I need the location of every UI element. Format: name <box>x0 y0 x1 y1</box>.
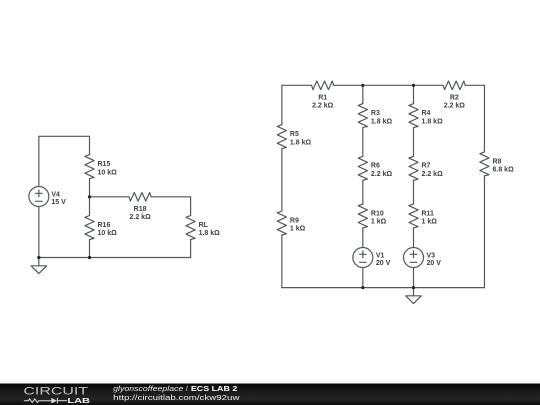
svg-text:R10: R10 <box>371 210 384 217</box>
svg-text:R4: R4 <box>422 110 431 117</box>
svg-text:10 kΩ: 10 kΩ <box>98 230 118 237</box>
svg-text:1 kΩ: 1 kΩ <box>371 219 387 226</box>
svg-text:1.8 kΩ: 1.8 kΩ <box>290 139 312 146</box>
svg-text:R2: R2 <box>450 94 459 101</box>
svg-text:V3: V3 <box>427 252 436 259</box>
svg-text:LAB: LAB <box>67 396 90 405</box>
svg-text:2.2 kΩ: 2.2 kΩ <box>312 103 334 110</box>
svg-text:1.8 kΩ: 1.8 kΩ <box>371 118 393 125</box>
svg-text:V1: V1 <box>376 252 385 259</box>
svg-text:2.2 kΩ: 2.2 kΩ <box>371 171 393 178</box>
svg-text:glyonscoffeeplace: glyonscoffeeplace <box>113 384 183 393</box>
svg-text:R3: R3 <box>371 110 380 117</box>
svg-text:2.2 kΩ: 2.2 kΩ <box>422 171 444 178</box>
svg-text:R1: R1 <box>318 94 327 101</box>
svg-text:15 V: 15 V <box>51 199 66 206</box>
svg-text:1 kΩ: 1 kΩ <box>290 226 306 233</box>
svg-text:R18: R18 <box>134 206 147 213</box>
svg-text:10 kΩ: 10 kΩ <box>98 169 118 176</box>
svg-text:1.8 kΩ: 1.8 kΩ <box>422 118 444 125</box>
svg-text:2.2 kΩ: 2.2 kΩ <box>444 103 466 110</box>
svg-text:1 kΩ: 1 kΩ <box>422 219 438 226</box>
svg-text:R16: R16 <box>98 222 111 229</box>
svg-text:R9: R9 <box>290 217 299 224</box>
svg-text:ECS LAB 2: ECS LAB 2 <box>191 384 237 393</box>
svg-text:20 V: 20 V <box>427 260 442 267</box>
svg-text:V4: V4 <box>51 192 60 199</box>
svg-text:http://circuitlab.com/ckw92uw: http://circuitlab.com/ckw92uw <box>113 393 240 402</box>
svg-text:1.8 kΩ: 1.8 kΩ <box>199 230 221 237</box>
svg-text:R6: R6 <box>371 163 380 170</box>
svg-text:R5: R5 <box>290 131 299 138</box>
svg-text:R8: R8 <box>493 158 502 165</box>
svg-text:6.8 kΩ: 6.8 kΩ <box>493 167 515 174</box>
svg-text:RL: RL <box>199 222 209 229</box>
svg-text:20 V: 20 V <box>376 260 391 267</box>
svg-text:R7: R7 <box>422 163 431 170</box>
svg-text:R11: R11 <box>422 210 435 217</box>
svg-text:2.2 kΩ: 2.2 kΩ <box>130 214 152 221</box>
svg-text:R15: R15 <box>98 161 111 168</box>
